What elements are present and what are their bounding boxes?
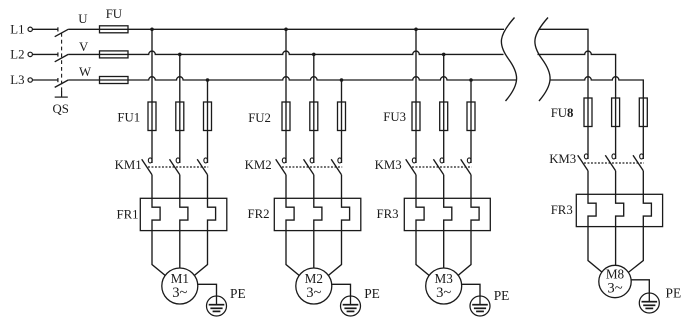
- junction dot bus phase 1 branch 1: [150, 28, 154, 32]
- junction dot bus phase 1 branch 2: [284, 28, 288, 32]
- svg-text:FU1: FU1: [117, 111, 140, 125]
- contactor KM2 main contact phase 3: [331, 158, 341, 175]
- svg-text:FU3: FU3: [383, 110, 406, 124]
- switch QS pole 3: [55, 78, 68, 87]
- svg-text:FR2: FR2: [248, 207, 270, 221]
- thermal relay FR3 box: [576, 194, 662, 226]
- wire motor M8 to PE ground: [615, 280, 649, 293]
- switch QS linkage (dashed): [61, 33, 63, 91]
- bus W (L3 phase) with crossover hops: [128, 77, 517, 80]
- thermal relay FR1 box: [140, 198, 227, 230]
- svg-text:PE: PE: [666, 286, 682, 301]
- wire branch 2 phase 3 through relay FR2 to motor: [314, 175, 350, 288]
- linkage KM1 (dashed): [148, 166, 208, 168]
- wire branch 1 phase 2 through relay FR1 to motor: [180, 175, 188, 288]
- wire branch 3 phase 3 through relay FR3 to motor: [444, 175, 479, 288]
- svg-text:L2: L2: [10, 48, 24, 62]
- wire switch to fuse FU phase 2: [68, 53, 128, 55]
- ground PE: [207, 296, 227, 316]
- contactor KM3 main contact phase 1: [406, 158, 416, 175]
- thermal relay FR3 box: [404, 198, 490, 230]
- fuse FU1 phase 2: [176, 102, 184, 131]
- junction dot bus phase 3 branch 3: [469, 78, 473, 82]
- junction dot bus phase 1 branch 3: [414, 28, 418, 32]
- junction dot bus phase 3 branch 2: [340, 78, 344, 82]
- svg-text:M3: M3: [435, 271, 454, 286]
- wire motor M3 to PE ground: [444, 284, 480, 296]
- wire branch 3 phase 2 through relay FR3 to motor: [444, 175, 452, 288]
- svg-text:M8: M8: [606, 267, 625, 282]
- wire L2 to switch QS: [32, 53, 58, 55]
- contactor KM2 main contact phase 2: [304, 158, 314, 175]
- contactor KM3 main contact phase 2: [605, 154, 615, 171]
- svg-text:V: V: [79, 40, 89, 54]
- fuse FU8 phase 1: [584, 98, 592, 127]
- fuse FU1 phase 3: [204, 102, 212, 131]
- wire branch 3 phase 1 through relay FR3 to motor: [416, 175, 444, 288]
- node L2 supply terminal: [10, 48, 32, 62]
- switch QS handle: [55, 91, 68, 97]
- wire branch 1 phase 1 drop from bus: [151, 29, 153, 163]
- bus U continuation to branch 4: [539, 29, 589, 159]
- junction dot bus phase 2 branch 1: [178, 53, 182, 57]
- svg-text:KM2: KM2: [245, 158, 272, 172]
- fuse FU8 phase 3: [639, 98, 647, 127]
- node L3 supply terminal: [10, 73, 32, 87]
- wire branch 3 phase 1 drop from bus: [415, 29, 417, 163]
- linkage KM3 (dashed): [584, 162, 644, 164]
- fuse FU element phase 2: [100, 51, 129, 58]
- switch QS pole 1: [55, 27, 68, 36]
- wire branch 1 phase 2 drop from bus: [179, 54, 181, 163]
- fuse FU3 phase 3: [467, 102, 475, 131]
- fuse FU3 phase 2: [440, 102, 448, 131]
- svg-text:FU: FU: [106, 7, 122, 21]
- motor M8: [599, 265, 631, 297]
- wire L3 to switch QS: [32, 79, 58, 81]
- linkage KM3 (dashed): [412, 166, 472, 168]
- svg-text:U: U: [78, 12, 87, 26]
- fuse FU2 phase 2: [310, 102, 318, 131]
- contactor KM3 main contact phase 2: [433, 158, 443, 175]
- junction dot bus phase 2 branch 2: [312, 53, 316, 57]
- wire branch 1 phase 1 through relay FR1 to motor: [152, 175, 180, 288]
- wire branch 1 phase 3 through relay FR1 to motor: [180, 175, 216, 288]
- node L1 supply terminal: [10, 22, 32, 36]
- svg-text:FR1: FR1: [117, 208, 139, 222]
- bus W continuation to branch 4 with hops: [551, 77, 644, 159]
- wire motor M2 to PE ground: [314, 284, 351, 296]
- svg-text:KM3: KM3: [375, 158, 402, 172]
- junction dot bus phase 2 branch 3: [442, 53, 446, 57]
- fuse FU1 phase 1: [148, 102, 156, 131]
- svg-text:3~: 3~: [436, 285, 451, 301]
- contactor KM1 main contact phase 3: [197, 158, 207, 175]
- wire branch 2 phase 2 drop from bus: [313, 54, 315, 163]
- contactor KM1 main contact phase 2: [170, 158, 180, 175]
- svg-text:KM1: KM1: [115, 158, 142, 172]
- wire switch to fuse FU phase 3: [68, 79, 128, 81]
- line break squiggle left: [501, 18, 516, 102]
- svg-text:FU2: FU2: [248, 111, 271, 125]
- fuse FU3 phase 1: [412, 102, 420, 131]
- ground PE: [341, 296, 361, 316]
- svg-text:3~: 3~: [306, 285, 321, 301]
- thermal relay FR2 box: [274, 198, 361, 230]
- svg-text:3~: 3~: [607, 280, 622, 296]
- bus U (L1 phase): [128, 28, 504, 30]
- motor M1: [162, 268, 198, 304]
- wire branch 2 phase 2 through relay FR2 to motor: [314, 175, 322, 288]
- fuse FU8 phase 2: [612, 98, 620, 127]
- wire L1 to switch QS: [32, 28, 58, 30]
- svg-text:QS: QS: [53, 102, 69, 116]
- motor M2: [296, 268, 332, 304]
- fuse FU element phase 1: [100, 26, 129, 33]
- fuse FU element phase 3: [100, 77, 129, 84]
- wire branch 3 phase 2 drop from bus: [443, 54, 445, 163]
- wire branch 2 phase 3 drop from bus: [341, 80, 343, 163]
- svg-text:PE: PE: [364, 286, 380, 301]
- contactor KM2 main contact phase 1: [276, 158, 286, 175]
- bus V (L2 phase) with crossover hops: [128, 51, 504, 54]
- svg-text:PE: PE: [494, 288, 510, 303]
- svg-text:FR3: FR3: [377, 207, 399, 221]
- contactor KM3 main contact phase 3: [633, 154, 643, 171]
- wire branch 2 phase 1 through relay FR2 to motor: [286, 175, 314, 288]
- contactor KM3 main contact phase 3: [461, 158, 471, 175]
- wire motor M1 to PE ground: [180, 284, 217, 296]
- wire branch 4 phase 2 through relay FR3 to motor: [616, 171, 624, 283]
- svg-text:M1: M1: [171, 271, 189, 286]
- svg-text:PE: PE: [230, 286, 246, 301]
- ground PE: [639, 293, 659, 313]
- svg-text:W: W: [79, 65, 92, 79]
- fuse FU2 phase 1: [282, 102, 290, 131]
- wire branch 4 phase 1 through relay FR3 to motor: [588, 171, 615, 283]
- linkage KM2 (dashed): [282, 166, 342, 168]
- junction dot bus phase 3 branch 1: [206, 78, 210, 82]
- switch QS pole 2: [55, 52, 68, 61]
- contactor KM3 main contact phase 1: [578, 154, 588, 171]
- svg-text:KM3: KM3: [549, 152, 576, 166]
- svg-text:FU8: FU8: [551, 106, 574, 120]
- line break squiggle right: [535, 18, 550, 102]
- svg-text:L3: L3: [10, 73, 24, 87]
- svg-text:FR3: FR3: [551, 203, 573, 217]
- motor M3: [426, 268, 462, 304]
- svg-text:M2: M2: [305, 271, 323, 286]
- ground PE: [470, 296, 490, 316]
- wire branch 1 phase 3 drop from bus: [207, 80, 209, 163]
- contactor KM1 main contact phase 1: [142, 158, 152, 175]
- wire switch to fuse FU phase 1: [68, 28, 128, 30]
- fuse FU2 phase 3: [338, 102, 346, 131]
- bus V continuation to branch 4 with hop: [538, 51, 616, 159]
- svg-text:L1: L1: [10, 22, 24, 36]
- svg-text:3~: 3~: [172, 285, 187, 301]
- wire branch 2 phase 1 drop from bus: [285, 29, 287, 163]
- wire branch 4 phase 3 through relay FR3 to motor: [615, 171, 651, 283]
- wire branch 3 phase 3 drop from bus: [470, 80, 472, 163]
